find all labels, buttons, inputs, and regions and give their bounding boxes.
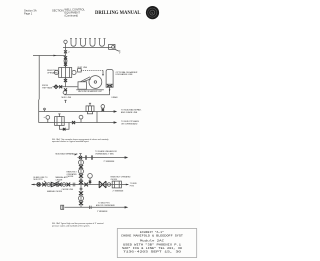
tank label	[116, 71, 138, 76]
lower valve 2	[79, 201, 83, 205]
valve V6 on lower riser	[64, 88, 67, 91]
min size label right	[113, 190, 124, 192]
suction line from BOP	[53, 86, 78, 88]
svg-text:(Continued): (Continued)	[65, 14, 79, 18]
gauge M2	[62, 183, 66, 187]
vent stub	[64, 100, 66, 103]
left riser	[38, 100, 40, 123]
valve M1	[42, 183, 46, 187]
title block border	[117, 229, 197, 258]
column valve 1	[79, 165, 83, 169]
svg-text:MUD PITS: MUD PITS	[34, 179, 44, 181]
riser pipe	[65, 48, 67, 87]
svg-text:MANUAL CHOKE: MANUAL CHOKE	[47, 190, 63, 193]
header left: section/page numbers	[24, 8, 37, 15]
figure 2 caption	[52, 222, 104, 227]
svg-text:DRILLING MANUAL: DRILLING MANUAL	[95, 11, 141, 16]
flare labels	[95, 150, 117, 163]
vent header line	[63, 47, 112, 49]
svg-text:pressure valves and manifolds: pressure valves and manifolds of the sys…	[52, 224, 90, 227]
flow line 1	[39, 110, 118, 112]
valve M2	[58, 183, 62, 187]
column gauge 2	[79, 169, 84, 174]
blind flange left	[61, 205, 64, 209]
gauge valve A	[44, 116, 50, 123]
remote operated choke body	[54, 66, 76, 79]
svg-text:7136-4203 SEPT 15, 30: 7136-4203 SEPT 15, 30	[123, 250, 181, 254]
vent pilot label	[77, 67, 87, 72]
svg-text:OR OVERBOARD: OR OVERBOARD	[121, 122, 138, 125]
valve M3	[67, 183, 71, 187]
cross junction valves	[79, 181, 83, 185]
vent bottle 1	[70, 39, 77, 47]
gauge on line 1	[101, 104, 105, 111]
svg-text:OPERATED: OPERATED	[47, 71, 58, 74]
remote choke label right	[111, 176, 132, 181]
manual choke wedge	[51, 182, 57, 187]
vent bottle 3	[89, 39, 96, 47]
flange spool	[85, 155, 92, 159]
valve V2	[64, 56, 67, 59]
valve circle-x left	[37, 183, 41, 187]
bottom line flange	[90, 206, 92, 209]
svg-text:MUD LINE: MUD LINE	[62, 97, 72, 99]
flow line 2	[39, 121, 118, 123]
figure 1 caption	[52, 138, 109, 143]
gauge valve C	[79, 115, 83, 122]
bleed label	[34, 177, 49, 184]
valve V4 below choke	[64, 79, 67, 82]
relief pot with float	[109, 44, 121, 54]
flare line	[78, 156, 129, 158]
manual choke label below	[47, 190, 63, 193]
gauge M3	[107, 183, 110, 186]
svg-text:Page 1: Page 1	[24, 12, 33, 16]
svg-text:CHOKE LINE: CHOKE LINE	[62, 189, 74, 191]
valve B on line 2	[72, 121, 75, 124]
lower gauge	[79, 196, 84, 201]
lower valve 1	[79, 191, 83, 195]
svg-text:TRIP TANK: TRIP TANK	[42, 86, 53, 89]
remote choke body right	[112, 181, 121, 188]
drain pot circle	[63, 91, 109, 95]
title block text	[121, 230, 183, 254]
labels right of lines	[121, 109, 142, 114]
drop to line 2	[96, 112, 98, 123]
valve V5	[59, 85, 62, 88]
header center: section title	[52, 8, 85, 18]
column gauge 1	[79, 160, 84, 165]
big valve right	[99, 181, 106, 188]
main manifold line	[31, 184, 129, 186]
manifold vertical column	[80, 158, 82, 185]
svg-text:OVERBOARD 2" MIN.: OVERBOARD 2" MIN.	[95, 152, 114, 155]
pressure gauge	[88, 174, 93, 185]
svg-text:AND/OR OVERBOARD: AND/OR OVERBOARD	[96, 204, 116, 207]
svg-text:DISCHARGE LINE: DISCHARGE LINE	[116, 73, 134, 76]
company logo	[146, 6, 159, 19]
choke box on line 1	[86, 103, 94, 114]
column valve 2	[79, 174, 83, 178]
label mud line	[62, 97, 72, 99]
valve V1 on riser	[64, 50, 70, 54]
check valve diamond	[54, 85, 58, 89]
bleedoff line	[65, 206, 129, 208]
tank drain line	[109, 87, 118, 99]
vent relief circle top left	[64, 40, 67, 47]
svg-text:AND FLARE LINE: AND FLARE LINE	[121, 111, 138, 114]
vent bottle 2	[80, 39, 87, 47]
feed line from left	[33, 55, 66, 100]
choke line label	[62, 189, 74, 191]
lower column line	[80, 185, 82, 208]
svg-text:2" MINIMUM: 2" MINIMUM	[97, 211, 108, 213]
svg-text:VENT LINE: VENT LINE	[77, 67, 87, 69]
gauge M1	[47, 183, 51, 187]
pump wheel	[89, 76, 102, 89]
svg-text:2": 2"	[119, 53, 121, 55]
separator feed label	[56, 152, 78, 155]
svg-text:S: S	[151, 11, 153, 15]
remote choke label	[67, 172, 78, 178]
valve V3	[64, 63, 67, 66]
svg-text:2" MINIMUM: 2" MINIMUM	[104, 161, 115, 163]
svg-text:SECTION:: SECTION:	[52, 8, 65, 12]
pilot dashed line	[81, 70, 104, 76]
svg-text:CHOKE MANIFOLD & BLEEDOFF SYST: CHOKE MANIFOLD & BLEEDOFF SYST	[121, 234, 183, 238]
pump base skid	[76, 89, 104, 90]
choke box on line 2	[55, 114, 65, 126]
choke label	[47, 70, 59, 74]
column flange	[80, 179, 83, 180]
label FROM	[42, 85, 53, 89]
svg-text:operated chokes in a typical m: operated chokes in a typical manifold la…	[52, 140, 90, 143]
vent bottle 4	[99, 39, 106, 47]
svg-text:CHOKE: CHOKE	[111, 179, 118, 181]
valve M4 right	[84, 183, 88, 187]
flange pair main	[73, 183, 75, 187]
sensor on line 1	[44, 108, 46, 111]
svg-text:VACUUM DEGASSER UNIT: VACUUM DEGASSER UNIT	[78, 90, 103, 93]
svg-text:PITS: PITS	[130, 186, 135, 188]
bleedoff labels	[96, 202, 116, 212]
svg-text:2": 2"	[68, 52, 70, 54]
lower column flange	[80, 188, 83, 189]
bypass loop under box	[59, 123, 69, 131]
pump motor block	[78, 77, 91, 89]
flange pair	[64, 59, 67, 62]
manual choke label	[55, 176, 68, 183]
discharge tank	[106, 69, 113, 87]
valve on flare line	[79, 154, 82, 159]
svg-text:2" MINIMUM: 2" MINIMUM	[113, 190, 124, 192]
to pits label	[130, 183, 138, 187]
svg-text:DRAIN: DRAIN	[112, 96, 119, 99]
